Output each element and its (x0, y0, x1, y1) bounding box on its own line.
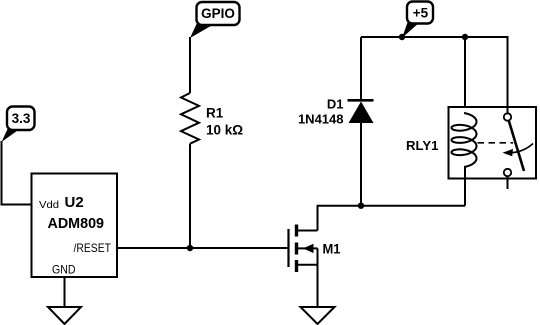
label R1 value (206, 106, 243, 138)
flag 3.3 (2, 107, 35, 143)
relay switch top contact (504, 113, 511, 120)
IC U2 ADM809 box (32, 174, 118, 278)
relay RLY1 box (449, 107, 537, 179)
wire GPIO flag to R1 top (189, 37, 191, 93)
wire coil top lead (464, 37, 466, 113)
relay linkage dashed line (478, 142, 514, 144)
svg-text:+5: +5 (413, 6, 429, 21)
flag +5 (402, 2, 433, 39)
svg-text:U2: U2 (65, 194, 84, 211)
resistor R1 (181, 93, 199, 144)
svg-text:3.3: 3.3 (12, 111, 31, 126)
relay actuate arrow (503, 144, 534, 157)
wire R1 bottom to gate node (189, 144, 191, 248)
svg-text:R1: R1 (206, 106, 224, 121)
svg-text:GND: GND (52, 263, 76, 277)
wire 3.3 flag to Vdd pin (2, 141, 32, 205)
relay switch top lead (507, 107, 509, 113)
transistor M1 (289, 225, 318, 273)
node +5 tap (399, 34, 405, 40)
relay switch arm (509, 120, 524, 171)
svg-text:/RESET: /RESET (74, 241, 112, 255)
wire diode anode down (360, 122, 362, 206)
svg-text:Vdd: Vdd (39, 199, 59, 211)
svg-text:RLY1: RLY1 (406, 138, 439, 153)
wire /RESET pin to gate (117, 247, 288, 249)
svg-text:M1: M1 (323, 241, 341, 257)
ground under M1 (301, 307, 335, 324)
wire M1 source to ground (317, 265, 319, 307)
wire diode cathode to +5 rail (360, 37, 362, 100)
diode D1 (348, 100, 374, 123)
node junction R1/reset/gate (187, 245, 193, 251)
wire coil bottom lead (464, 167, 465, 206)
label D1 value (298, 97, 344, 127)
node junction diode/drain rail (358, 203, 364, 209)
ground under U2 (48, 307, 81, 324)
svg-text:10 kΩ: 10 kΩ (206, 123, 243, 138)
svg-text:ADM809: ADM809 (48, 215, 105, 232)
relay switch bottom contact (504, 169, 511, 176)
flag GPIO (190, 2, 240, 38)
svg-text:GPIO: GPIO (201, 6, 235, 21)
node coil branch (462, 34, 468, 40)
relay switch bottom lead (507, 176, 509, 189)
+5 rail wire (361, 37, 508, 107)
wire M1 drain up to rail (318, 206, 466, 231)
svg-text:1N4148: 1N4148 (298, 112, 344, 127)
wire U2 GND pin (64, 277, 66, 307)
relay coil (452, 113, 477, 167)
svg-text:D1: D1 (327, 97, 344, 112)
